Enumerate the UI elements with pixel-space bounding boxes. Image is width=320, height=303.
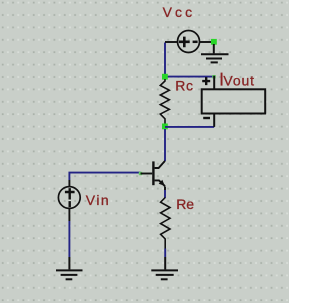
- resistor Re: [161, 198, 170, 249]
- emitter arrow: [159, 180, 165, 186]
- svg-text:Vin: Vin: [86, 192, 109, 208]
- wire from Vcc source down to Rc top: [164, 43, 166, 77]
- label Vout (with leading bar): [221, 73, 223, 86]
- resistor Rc: [160, 79, 169, 124]
- svg-text:Vout: Vout: [223, 73, 254, 89]
- base lead wire: [141, 173, 153, 175]
- wire collector column handled above; wire emitter down: [164, 187, 166, 191]
- wire Rc top to Vout + pin: [165, 76, 214, 78]
- wire node down to collector: [164, 129, 166, 161]
- voltage probe box Vout: [202, 76, 266, 127]
- ground (below Re): [151, 257, 178, 279]
- svg-text:Re: Re: [176, 196, 194, 212]
- transistor Q1: [153, 161, 165, 186]
- svg-text:Vcc: Vcc: [163, 4, 193, 20]
- wire Vin bottom to ground: [68, 221, 70, 257]
- wire Vin top corner to base: [69, 173, 140, 180]
- wire Rc bottom to Vout - pin: [165, 126, 214, 128]
- ground (at Vcc source): [201, 44, 229, 62]
- node (faint) at base junction: [139, 172, 142, 175]
- node at Rc top: [162, 74, 168, 80]
- svg-text:Rc: Rc: [175, 77, 193, 93]
- voltage source V1 (Vcc): [165, 31, 213, 53]
- voltage source V2 (Vin): [58, 180, 80, 221]
- node at Vcc/ground junction: [211, 39, 217, 45]
- node (faint) at Vout + stub: [212, 75, 215, 78]
- wire Re bottom to ground: [164, 249, 166, 258]
- ground (below Vin): [56, 257, 83, 279]
- node at Rc bottom / collector: [162, 124, 168, 130]
